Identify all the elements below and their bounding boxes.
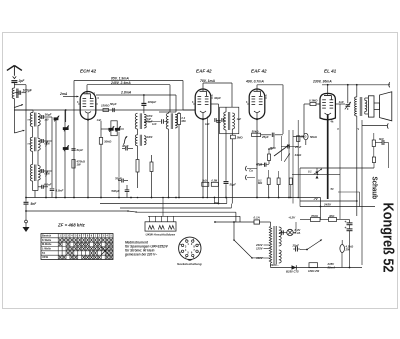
svg-text:0.3A: 0.3A <box>295 231 301 235</box>
svg-text:2pF: 2pF <box>18 79 26 83</box>
svg-text:50µF: 50µF <box>230 183 237 187</box>
svg-text:180pF: 180pF <box>148 100 157 104</box>
svg-text:245V: 245V <box>323 202 332 206</box>
svg-text:1W: 1W <box>77 163 82 167</box>
svg-text:40pF: 40pF <box>121 144 129 148</box>
svg-text:180Ω ZW: 180Ω ZW <box>308 269 320 273</box>
svg-text:85V, 1.9mA: 85V, 1.9mA <box>111 76 129 80</box>
svg-text:3300: 3300 <box>147 135 153 139</box>
svg-text:220V~: 220V~ <box>269 263 279 267</box>
svg-text:1nF: 1nF <box>339 100 345 104</box>
svg-text:700Ω: 700Ω <box>311 214 319 218</box>
svg-text:gemessen bei 220 V~: gemessen bei 220 V~ <box>124 253 157 257</box>
svg-text:30kΩ: 30kΩ <box>104 139 112 143</box>
svg-text:78V, 1mA: 78V, 1mA <box>200 79 216 83</box>
svg-text:100pF: 100pF <box>23 89 33 93</box>
svg-text:+: + <box>345 226 347 230</box>
svg-text:K-Welle: K-Welle <box>42 239 52 242</box>
svg-text:ZF = 468 kHz: ZF = 468 kHz <box>57 223 86 228</box>
svg-text:0.1A: 0.1A <box>254 216 260 220</box>
svg-text:1nF: 1nF <box>97 118 102 122</box>
svg-text:1nF: 1nF <box>205 122 210 126</box>
svg-text:M-Welle: M-Welle <box>42 243 52 246</box>
svg-text:125V: 125V <box>256 247 264 251</box>
svg-text:1MΩ: 1MΩ <box>237 135 244 139</box>
svg-text:25µF: 25µF <box>292 244 300 248</box>
svg-text:25pF: 25pF <box>261 135 269 139</box>
svg-text:4k: 4k <box>330 120 334 124</box>
svg-text:0.1: 0.1 <box>308 169 312 173</box>
svg-text:EL 41: EL 41 <box>324 69 337 74</box>
svg-text:2mA: 2mA <box>59 92 68 96</box>
svg-text:Bereich: Bereich <box>42 235 52 238</box>
svg-text:1nF: 1nF <box>152 122 157 126</box>
svg-text:44kΩ: 44kΩ <box>294 153 302 157</box>
svg-text:MΩ: MΩ <box>258 181 262 185</box>
svg-text:30pF: 30pF <box>214 96 221 100</box>
svg-text:6.8nF: 6.8nF <box>56 189 64 193</box>
svg-text:EAF 42: EAF 42 <box>196 69 212 74</box>
svg-text:UKW-Anschlußdose: UKW-Anschlußdose <box>146 232 176 236</box>
svg-text:25nF: 25nF <box>294 145 302 149</box>
svg-text:50pF: 50pF <box>110 102 117 106</box>
svg-text:0.3MΩ: 0.3MΩ <box>309 99 318 103</box>
svg-text:245V, 2.4mA: 245V, 2.4mA <box>110 81 131 85</box>
svg-text:0350: 0350 <box>45 173 51 176</box>
svg-text:UKW: UKW <box>42 256 49 259</box>
svg-text:61pF: 61pF <box>77 148 84 152</box>
svg-text:1nF: 1nF <box>237 117 242 121</box>
svg-text:ZW: ZW <box>345 248 351 252</box>
svg-text:70pF: 70pF <box>115 177 122 181</box>
svg-text:6.8nF: 6.8nF <box>44 182 52 186</box>
svg-text:ECH 42: ECH 42 <box>80 69 97 74</box>
svg-text:0350: 0350 <box>45 143 51 146</box>
svg-text:36pF: 36pF <box>45 113 52 117</box>
svg-text:0.3M: 0.3M <box>212 179 218 182</box>
svg-text:50mA: 50mA <box>328 266 336 270</box>
svg-text:-4,2V: -4,2V <box>288 216 296 220</box>
svg-text:MΩ: MΩ <box>182 119 186 123</box>
svg-text:+: + <box>345 220 347 224</box>
svg-text:2W: 2W <box>213 201 218 205</box>
svg-text:40Ω: 40Ω <box>328 214 335 218</box>
svg-text:25nF: 25nF <box>255 162 262 166</box>
svg-text:1500Ω: 1500Ω <box>101 103 110 107</box>
svg-text:49V, 0.7mA: 49V, 0.7mA <box>245 80 264 84</box>
svg-text:1kΩ: 1kΩ <box>202 179 207 182</box>
svg-text:EAF 42: EAF 42 <box>251 69 267 74</box>
svg-text:50kΩ: 50kΩ <box>252 129 260 133</box>
svg-text:350: 350 <box>45 119 50 122</box>
svg-text:Ca: Ca <box>249 169 253 173</box>
svg-text:Kongreß 52: Kongreß 52 <box>380 203 397 273</box>
svg-text:Sockelschaltung: Sockelschaltung <box>177 262 202 266</box>
svg-text:Schaub: Schaub <box>371 177 380 200</box>
svg-text:L-Welle: L-Welle <box>42 247 51 250</box>
svg-text:50kΩ: 50kΩ <box>310 135 318 139</box>
svg-text:230V, 36mA: 230V, 36mA <box>312 80 332 84</box>
svg-text:B250 C75: B250 C75 <box>286 270 299 274</box>
svg-text:TA: TA <box>42 252 45 255</box>
svg-text:2.8mA: 2.8mA <box>120 91 132 95</box>
svg-text:8nF: 8nF <box>379 137 384 141</box>
svg-text:500pF: 500pF <box>111 189 119 193</box>
svg-text:2nF: 2nF <box>267 147 273 151</box>
